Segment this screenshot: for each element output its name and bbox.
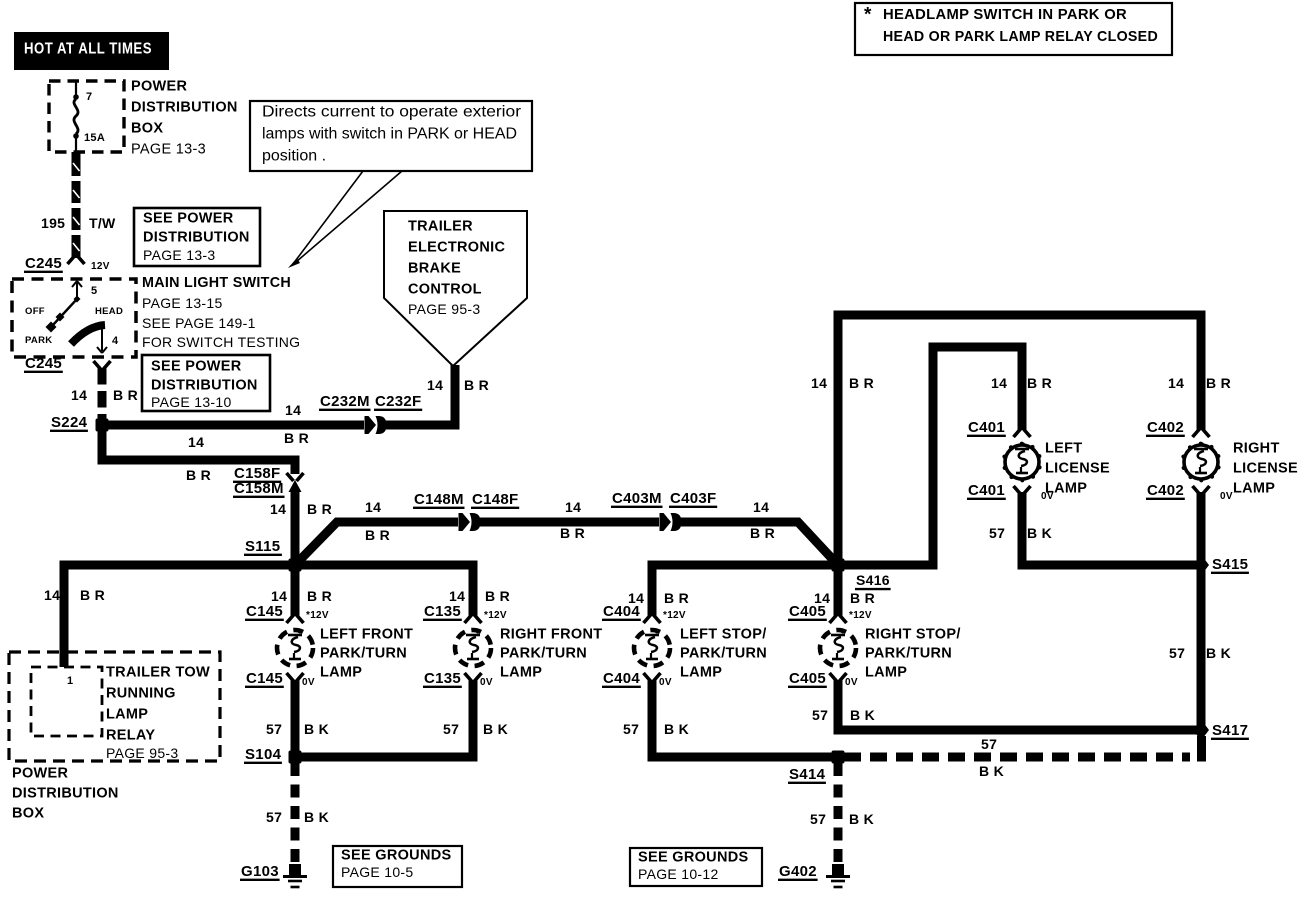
svg-text:S417: S417	[1212, 722, 1248, 739]
svg-text:CONTROL: CONTROL	[408, 281, 482, 297]
svg-text:B R: B R	[1206, 375, 1231, 391]
svg-text:C402: C402	[1147, 482, 1184, 499]
svg-text:T/W: T/W	[89, 215, 116, 231]
svg-text:BRAKE: BRAKE	[408, 260, 461, 276]
svg-text:LAMP: LAMP	[680, 664, 722, 680]
svg-text:5: 5	[91, 285, 97, 297]
svg-text:B K: B K	[849, 811, 874, 827]
svg-text:*: *	[864, 5, 872, 26]
svg-text:14: 14	[753, 499, 769, 515]
svg-text:LAMP: LAMP	[865, 664, 907, 680]
svg-text:PARK/TURN: PARK/TURN	[680, 645, 767, 661]
svg-text:LICENSE: LICENSE	[1045, 460, 1110, 476]
svg-text:G402: G402	[779, 863, 817, 880]
svg-text:12V: 12V	[91, 261, 110, 272]
svg-text:PAGE 13-3: PAGE 13-3	[143, 247, 215, 263]
svg-text:S415: S415	[1212, 556, 1248, 573]
svg-text:57: 57	[623, 721, 639, 737]
svg-text:14: 14	[365, 499, 381, 515]
svg-text:C135: C135	[424, 670, 461, 687]
svg-text:S104: S104	[245, 746, 282, 763]
svg-text:14: 14	[270, 501, 286, 517]
svg-text:C405: C405	[789, 603, 826, 620]
svg-text:TRAILER TOW: TRAILER TOW	[106, 664, 210, 680]
svg-text:HEAD OR PARK LAMP RELAY CLOSED: HEAD OR PARK LAMP RELAY CLOSED	[883, 28, 1158, 45]
svg-text:LAMP: LAMP	[106, 706, 148, 722]
svg-text:PARK/TURN: PARK/TURN	[320, 645, 407, 661]
svg-text:14: 14	[44, 587, 60, 603]
svg-text:HOT AT ALL TIMES: HOT AT ALL TIMES	[24, 41, 152, 58]
svg-text:C401: C401	[968, 419, 1005, 436]
svg-text:S414: S414	[789, 766, 826, 783]
svg-text:PARK: PARK	[25, 335, 52, 346]
svg-text:C245: C245	[25, 255, 62, 272]
svg-text:57: 57	[812, 707, 828, 723]
svg-text:POWER: POWER	[12, 765, 69, 781]
svg-text:PAGE 95-3: PAGE 95-3	[106, 745, 178, 761]
svg-text:57: 57	[266, 721, 282, 737]
svg-text:SEE GROUNDS: SEE GROUNDS	[341, 847, 451, 863]
svg-text:B R: B R	[307, 588, 332, 604]
svg-text:RIGHT STOP/: RIGHT STOP/	[865, 626, 961, 642]
svg-text:C404: C404	[603, 603, 640, 620]
svg-text:C404: C404	[603, 670, 640, 687]
svg-text:0V: 0V	[845, 677, 858, 688]
svg-text:DISTRIBUTION: DISTRIBUTION	[151, 377, 258, 393]
svg-text:14: 14	[991, 375, 1007, 391]
svg-text:MAIN LIGHT SWITCH: MAIN LIGHT SWITCH	[142, 274, 291, 291]
svg-text:57: 57	[443, 721, 459, 737]
svg-text:PAGE 10-12: PAGE 10-12	[638, 866, 719, 882]
svg-text:HEAD: HEAD	[95, 306, 123, 317]
svg-text:PAGE 95-3: PAGE 95-3	[408, 301, 480, 317]
svg-text:C148M: C148M	[414, 491, 464, 508]
svg-text:DISTRIBUTION: DISTRIBUTION	[12, 785, 119, 801]
svg-text:RIGHT: RIGHT	[1233, 440, 1280, 456]
svg-text:PAGE 13-15: PAGE 13-15	[142, 295, 223, 311]
svg-text:14: 14	[271, 588, 287, 604]
svg-text:B R: B R	[365, 527, 390, 543]
svg-text:PAGE 13-3: PAGE 13-3	[131, 141, 206, 157]
svg-text:S224: S224	[51, 414, 88, 431]
svg-text:LAMP: LAMP	[1233, 480, 1275, 496]
svg-text:14: 14	[285, 402, 301, 418]
svg-text:LEFT: LEFT	[1045, 440, 1082, 456]
svg-text:195: 195	[41, 215, 65, 231]
svg-text:14: 14	[427, 377, 443, 393]
svg-text:C401: C401	[968, 482, 1005, 499]
svg-text:RUNNING: RUNNING	[106, 685, 176, 701]
svg-text:B R: B R	[750, 525, 775, 541]
svg-text:14: 14	[1168, 375, 1184, 391]
svg-text:B K: B K	[1027, 525, 1052, 541]
svg-text:*12V: *12V	[484, 610, 507, 621]
svg-text:14: 14	[811, 375, 827, 391]
svg-text:B K: B K	[850, 707, 875, 723]
svg-text:C232F: C232F	[375, 393, 422, 410]
svg-text:HEADLAMP SWITCH IN PARK OR: HEADLAMP SWITCH IN PARK OR	[883, 6, 1127, 23]
svg-text:LICENSE: LICENSE	[1233, 460, 1298, 476]
svg-text:57: 57	[810, 811, 826, 827]
svg-text:DISTRIBUTION: DISTRIBUTION	[143, 229, 250, 245]
svg-text:POWER: POWER	[131, 78, 188, 94]
svg-text:B R: B R	[80, 587, 105, 603]
svg-text:B R: B R	[849, 375, 874, 391]
svg-text:14: 14	[188, 434, 204, 450]
svg-text:C402: C402	[1147, 419, 1184, 436]
svg-text:*12V: *12V	[849, 610, 872, 621]
svg-text:LEFT FRONT: LEFT FRONT	[320, 626, 413, 642]
svg-text:57: 57	[989, 525, 1005, 541]
svg-text:4: 4	[112, 335, 119, 347]
svg-text:DISTRIBUTION: DISTRIBUTION	[131, 99, 238, 115]
svg-text:B K: B K	[304, 809, 329, 825]
svg-text:14: 14	[71, 387, 87, 403]
svg-text:SEE PAGE 149-1: SEE PAGE 149-1	[142, 315, 256, 331]
svg-text:B R: B R	[485, 588, 510, 604]
svg-text:position .: position .	[262, 148, 326, 165]
svg-text:PAGE 13-10: PAGE 13-10	[151, 394, 232, 410]
svg-text:57: 57	[266, 809, 282, 825]
svg-text:B R: B R	[307, 501, 332, 517]
svg-text:SEE POWER: SEE POWER	[151, 358, 242, 374]
svg-text:SEE POWER: SEE POWER	[143, 210, 234, 226]
svg-text:B R: B R	[850, 590, 875, 606]
svg-text:C158M: C158M	[234, 480, 284, 497]
svg-text:FOR SWITCH TESTING: FOR SWITCH TESTING	[142, 334, 300, 350]
svg-text:C403M: C403M	[612, 490, 662, 507]
svg-text:PARK/TURN: PARK/TURN	[865, 645, 952, 661]
svg-text:B R: B R	[284, 430, 309, 446]
svg-text:C232M: C232M	[320, 393, 370, 410]
svg-text:1: 1	[67, 675, 73, 687]
svg-text:B K: B K	[664, 721, 689, 737]
svg-text:0V: 0V	[659, 677, 672, 688]
svg-text:B K: B K	[304, 721, 329, 737]
svg-text:C135: C135	[424, 603, 461, 620]
svg-text:C145: C145	[246, 603, 283, 620]
svg-text:15A: 15A	[84, 132, 105, 144]
svg-text:PARK/TURN: PARK/TURN	[500, 645, 587, 661]
svg-text:7: 7	[86, 91, 92, 103]
svg-text:B R: B R	[1027, 375, 1052, 391]
svg-text:LAMP: LAMP	[1045, 480, 1087, 496]
svg-text:BOX: BOX	[12, 805, 44, 821]
svg-text:0V: 0V	[1220, 491, 1233, 502]
svg-text:Directs current to operate ext: Directs current to operate exterior	[262, 104, 522, 121]
svg-text:TRAILER: TRAILER	[408, 218, 473, 234]
svg-text:C405: C405	[789, 670, 826, 687]
svg-text:*12V: *12V	[663, 610, 686, 621]
svg-text:B R: B R	[664, 590, 689, 606]
svg-text:ELECTRONIC: ELECTRONIC	[408, 239, 505, 255]
svg-text:S416: S416	[856, 572, 890, 588]
svg-text:14: 14	[565, 499, 581, 515]
svg-text:B R: B R	[186, 467, 211, 483]
svg-text:PAGE 10-5: PAGE 10-5	[341, 864, 413, 880]
svg-text:57: 57	[981, 736, 997, 752]
svg-text:LEFT STOP/: LEFT STOP/	[680, 626, 767, 642]
svg-text:RELAY: RELAY	[106, 727, 155, 743]
svg-text:LAMP: LAMP	[320, 664, 362, 680]
svg-text:B K: B K	[483, 721, 508, 737]
svg-text:lamps with switch in PARK or H: lamps with switch in PARK or HEAD	[262, 126, 517, 143]
svg-text:BOX: BOX	[131, 120, 163, 136]
svg-text:B R: B R	[464, 377, 489, 393]
svg-text:G103: G103	[241, 863, 279, 880]
svg-text:S115: S115	[245, 538, 280, 555]
svg-text:0V: 0V	[302, 677, 315, 688]
svg-text:57: 57	[1169, 645, 1185, 661]
svg-text:B K: B K	[1206, 645, 1231, 661]
svg-text:SEE GROUNDS: SEE GROUNDS	[638, 849, 748, 865]
svg-text:B R: B R	[560, 525, 585, 541]
svg-text:OFF: OFF	[25, 306, 45, 317]
svg-text:B K: B K	[979, 763, 1004, 779]
svg-text:*12V: *12V	[306, 610, 329, 621]
svg-text:14: 14	[449, 588, 465, 604]
svg-text:C145: C145	[246, 670, 283, 687]
svg-text:RIGHT FRONT: RIGHT FRONT	[500, 626, 602, 642]
svg-text:0V: 0V	[480, 677, 493, 688]
svg-text:C148F: C148F	[472, 491, 519, 508]
svg-text:LAMP: LAMP	[500, 664, 542, 680]
svg-text:B R: B R	[113, 387, 138, 403]
svg-text:C245: C245	[25, 355, 62, 372]
svg-text:C403F: C403F	[670, 490, 717, 507]
